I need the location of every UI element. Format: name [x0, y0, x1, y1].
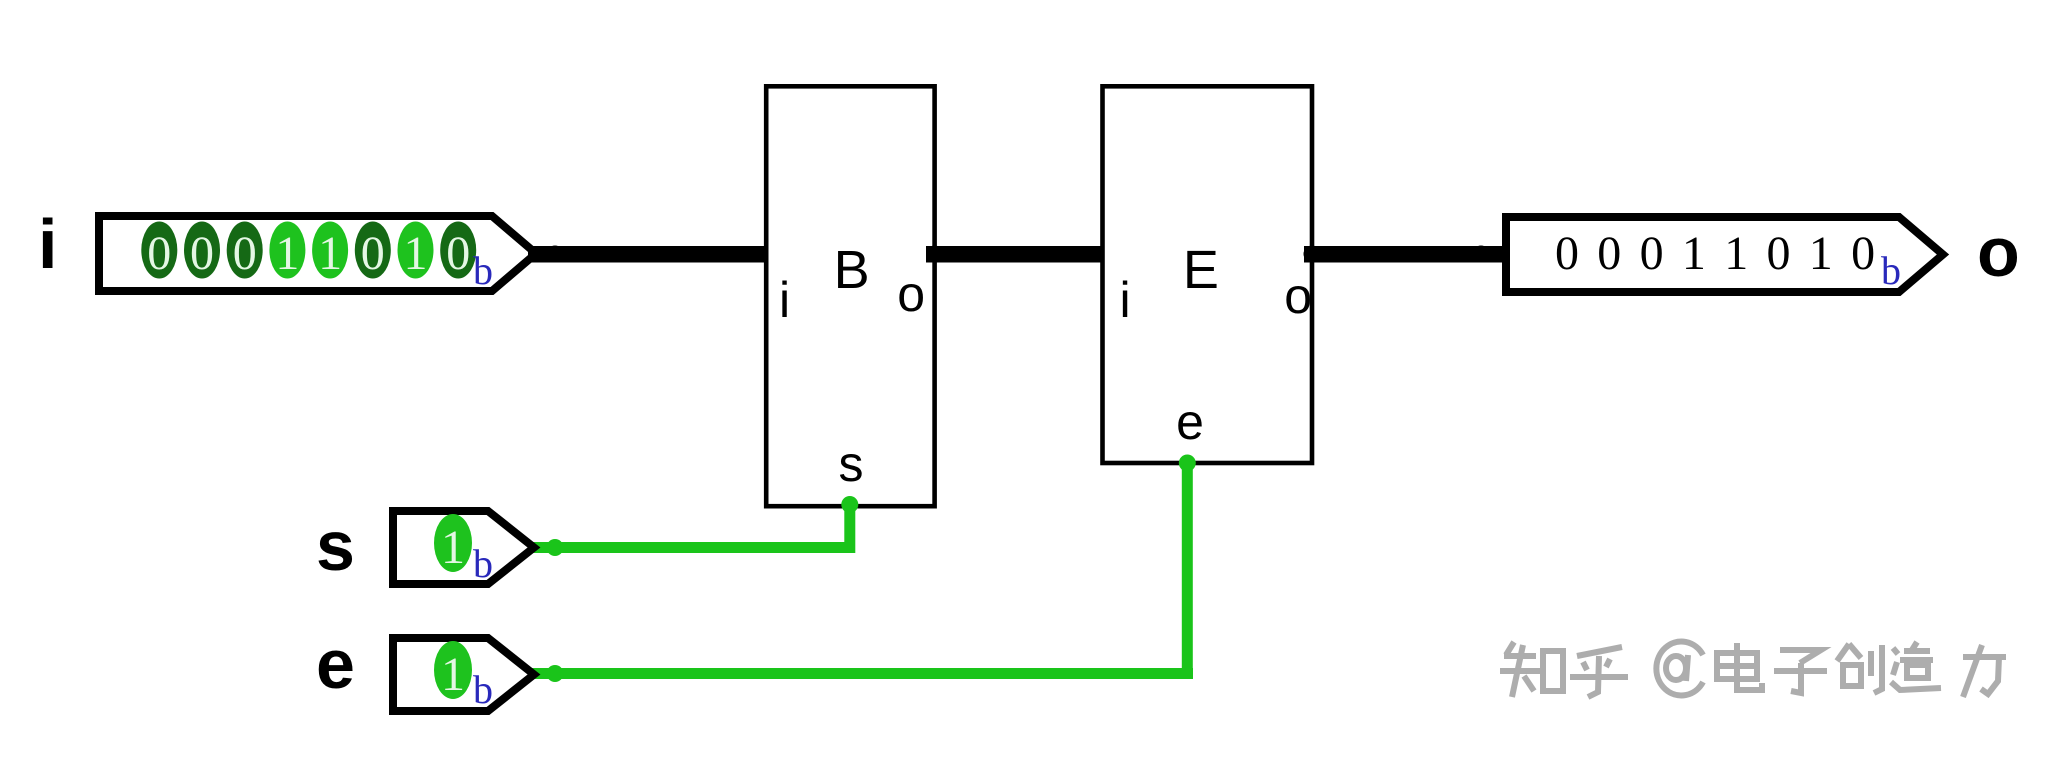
bit ovals of input pin i: [141, 222, 476, 281]
char zi: [1774, 650, 1827, 693]
svg-text:1: 1: [1724, 227, 1748, 280]
svg-text:o: o: [897, 266, 925, 322]
char dian: [1717, 643, 1762, 690]
svg-text:s: s: [316, 507, 355, 585]
svg-text:s: s: [839, 436, 864, 492]
label s (input pin name): [316, 507, 355, 585]
svg-text:1: 1: [1682, 227, 1706, 280]
label o (output pin name): [1977, 213, 2020, 291]
svg-text:o: o: [1284, 268, 1312, 324]
wire W4 : pin s to B.s (green): [528, 496, 858, 556]
svg-text:0: 0: [1851, 227, 1875, 280]
svg-text:1: 1: [1809, 227, 1833, 280]
input pin e (value 1): [393, 638, 534, 712]
svg-text:0: 0: [147, 227, 171, 280]
svg-text:i: i: [779, 272, 790, 328]
svg-text:0: 0: [233, 227, 257, 280]
wire W2 : B.o to E.i: [926, 246, 1111, 263]
svg-text:0: 0: [446, 227, 470, 280]
block E: [1103, 86, 1313, 463]
watermark 知乎 @电子创造力: [1500, 642, 2006, 697]
svg-text:b: b: [473, 541, 493, 586]
wire W3 : E.o to output pin o: [1304, 246, 1513, 263]
svg-text:0: 0: [1767, 227, 1791, 280]
base suffix b of input pin i: [473, 248, 493, 293]
output pin o (value 00011010): [1506, 217, 1943, 293]
char hu: [1570, 647, 1628, 697]
svg-text:e: e: [316, 625, 355, 703]
input pin s (value 1): [393, 511, 534, 586]
block B: [766, 86, 934, 506]
svg-text:0: 0: [1640, 227, 1664, 280]
char zhi: [1500, 642, 1563, 697]
svg-text:i: i: [38, 205, 57, 283]
input pin i (value 00011010): [99, 216, 536, 291]
svg-text:b: b: [473, 667, 493, 712]
svg-text:1: 1: [275, 227, 299, 280]
char at-sign: [1656, 642, 1703, 696]
svg-text:i: i: [1120, 272, 1131, 328]
svg-text:b: b: [473, 248, 493, 293]
label e (input pin name): [316, 625, 355, 703]
svg-text:0: 0: [361, 227, 385, 280]
svg-text:B: B: [834, 240, 870, 300]
svg-text:b: b: [1881, 248, 1901, 293]
svg-text:e: e: [1176, 394, 1204, 450]
svg-text:o: o: [1977, 213, 2020, 291]
svg-text:E: E: [1183, 240, 1219, 300]
svg-text:0: 0: [190, 227, 214, 280]
svg-text:1: 1: [318, 227, 342, 280]
char li: [1963, 645, 2006, 697]
svg-text:1: 1: [441, 521, 465, 574]
char chuang: [1837, 644, 1882, 693]
svg-text:0: 0: [1597, 227, 1621, 280]
svg-text:1: 1: [404, 227, 428, 280]
svg-text:1: 1: [441, 648, 465, 701]
wire W5 : pin e to E.e (green): [528, 455, 1196, 683]
char zao: [1891, 642, 1941, 690]
svg-text:0: 0: [1555, 227, 1579, 280]
wire W1 : input pin i to B.i: [528, 246, 776, 263]
label i (input pin name): [38, 205, 57, 283]
